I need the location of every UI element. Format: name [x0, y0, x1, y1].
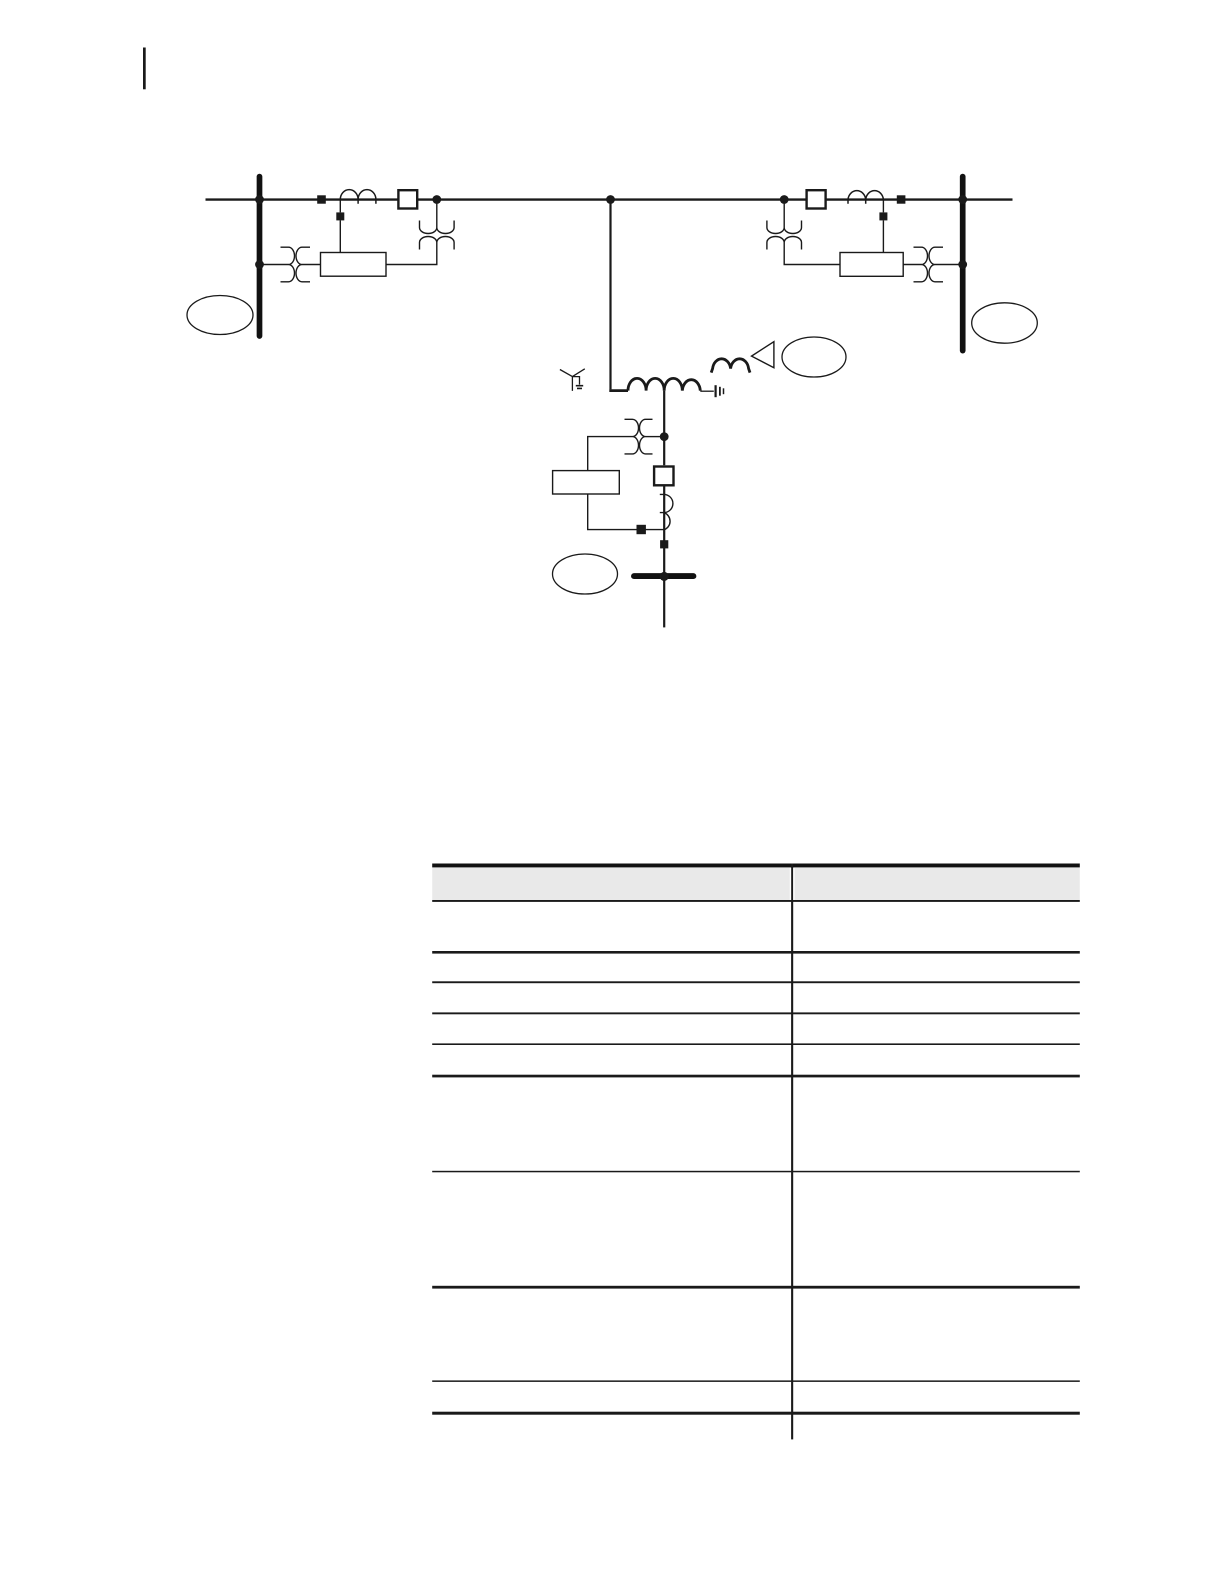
wire: reactor neutral tap down: [663, 391, 665, 466]
table rule row 5 (section): [432, 1075, 1080, 1078]
busbar left station: [257, 177, 263, 336]
wire: drop from right junction to CVT: [783, 202, 785, 228]
table rule row 7 (section): [432, 1286, 1080, 1289]
earthing reactor (four humps): [628, 378, 700, 390]
capacitor voltage transformer CVT right (two windings): [767, 221, 802, 250]
table rule row 3: [432, 1012, 1080, 1014]
node: neutral VT junction: [660, 432, 669, 441]
circuit breaker left (open square): [398, 190, 417, 208]
wire: left CT secondary tap: [339, 200, 341, 253]
node: left line / CVT junction: [432, 195, 441, 204]
current transformer CT left line: [340, 190, 376, 204]
relay left station (rectangle): [321, 253, 387, 277]
wire: neutral VT to relay top: [588, 437, 633, 471]
table header row (gray fill): [432, 868, 1080, 901]
wire: right CVT secondary to relay: [784, 243, 840, 265]
table rule row 4: [432, 1043, 1080, 1045]
earth (ground) symbol at reactor end: [716, 385, 724, 397]
table bottom rule: [432, 1412, 1080, 1415]
disconnector (filled square) right line: [897, 195, 906, 203]
node: right line / CVT junction: [780, 195, 789, 204]
table rule row 2: [432, 981, 1080, 983]
voltage transformer VT left busbar: [281, 247, 311, 282]
label balloon (ellipse) neutral bay: [553, 554, 618, 594]
wire: left busbar to busbar VT: [263, 264, 289, 266]
circuit breaker right (open square): [807, 190, 826, 208]
relay neutral (rectangle): [553, 471, 620, 494]
wire: reactor right terminal to earth: [700, 390, 714, 392]
wire: right relay to busbar VT: [903, 264, 921, 266]
wire: below earthing bar: [663, 580, 665, 628]
disconnector (filled square) left line: [317, 195, 326, 203]
wire: main horizontal line between stations: [206, 198, 1013, 200]
voltage transformer VT right busbar: [914, 247, 944, 282]
node: earthing bar junction: [660, 572, 669, 581]
wire: relay bottom to neutral CT: [588, 494, 664, 530]
node: left busbar VT junction: [255, 260, 264, 269]
current transformer CT neutral: [660, 494, 673, 530]
table top border (thick): [432, 864, 1080, 868]
wire: right busbar VT to busbar: [935, 264, 960, 266]
link (filled square) neutral CT wire: [637, 525, 646, 534]
relay right station (rectangle): [840, 253, 903, 277]
header cell padding gaps beside divider: [790, 868, 791, 900]
wire: left CVT secondary to relay: [386, 243, 437, 265]
wye grounded neutral symbol: [560, 369, 585, 391]
busbar right station: [960, 177, 966, 351]
table column divider: [791, 864, 793, 1440]
voltage transformer VT neutral: [625, 419, 653, 454]
wire: right CT secondary tap: [882, 200, 884, 253]
wire: bend to earthing reactor: [609, 389, 628, 392]
circuit breaker neutral (open square): [654, 467, 673, 486]
change bar (revision mark) top-left: [143, 48, 146, 90]
node: left busbar / line junction: [255, 195, 264, 204]
link (filled square) left CT tap: [336, 212, 344, 220]
node: right busbar / line junction: [958, 195, 967, 204]
node: right busbar VT junction: [958, 260, 967, 269]
current transformer CT right line: [848, 191, 883, 204]
earthing bar (thick): [634, 573, 693, 579]
wire: drop from left junction to CVT: [436, 202, 438, 228]
table rule row 8: [432, 1380, 1080, 1382]
wire: neutral VT to junction: [646, 436, 662, 438]
node: mid T-junction on line: [606, 195, 615, 204]
label balloon (ellipse) reactor annotation: [782, 337, 846, 377]
wire: left busbar VT to relay: [302, 264, 321, 266]
link (filled square) right CT tap: [879, 212, 887, 220]
label balloon (ellipse) left station: [187, 296, 253, 335]
label balloon (ellipse) right station: [972, 303, 1038, 343]
table rule row 6: [432, 1171, 1080, 1173]
capacitor voltage transformer CVT left (two windings): [420, 221, 455, 250]
wire: neutral conductor below CT: [663, 485, 665, 573]
neutral reactor annotation coil: [711, 359, 750, 373]
wire: vertical drop from mid T-junction: [609, 200, 611, 390]
table rule row 1: [432, 951, 1080, 954]
link (filled square) neutral conductor: [660, 540, 668, 548]
pointer triangle (arrowhead): [752, 342, 774, 368]
table header bottom rule: [432, 900, 1080, 902]
